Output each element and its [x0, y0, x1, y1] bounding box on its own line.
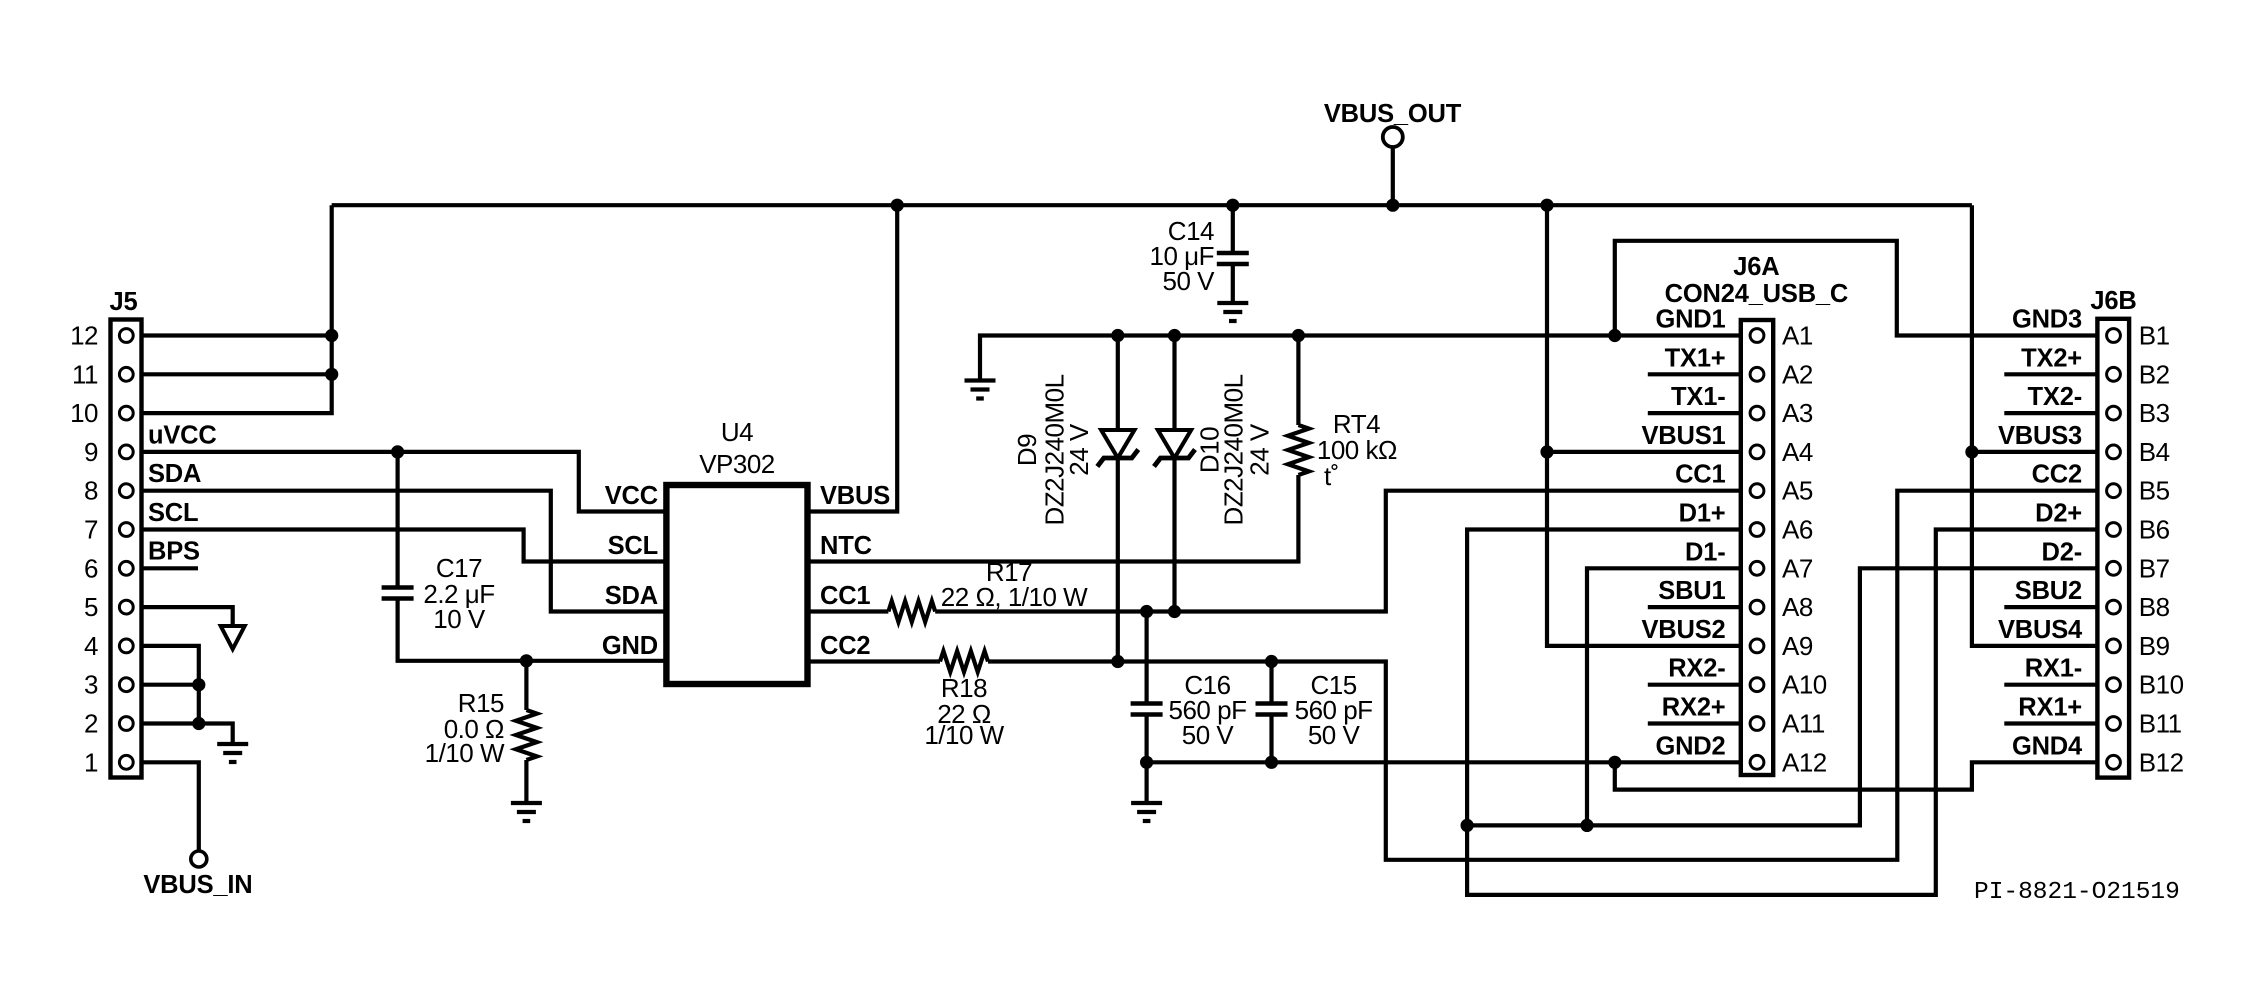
svg-text:VBUS: VBUS	[820, 482, 890, 510]
J6A pin A8 circle	[1750, 600, 1764, 614]
J6B pin B8 circle	[2107, 600, 2121, 614]
wire C14 top from bus	[1231, 205, 1235, 253]
svg-text:SCL: SCL	[608, 532, 658, 560]
port VBUS_IN circle	[191, 851, 207, 867]
svg-text:A12: A12	[1782, 747, 1827, 777]
svg-text:11: 11	[72, 359, 98, 389]
svg-text:5: 5	[84, 592, 98, 622]
svg-text:10 V: 10 V	[433, 604, 486, 634]
svg-text:VBUS1: VBUS1	[1641, 422, 1725, 450]
diode D10 (zener DZ2J240M0L)	[1158, 430, 1191, 458]
junction U4 GND / R15	[520, 654, 533, 667]
svg-text:A1: A1	[1782, 321, 1813, 351]
J6A pin A6 circle	[1750, 523, 1764, 537]
J6B pin B12 circle	[2107, 755, 2121, 769]
svg-text:22 Ω, 1/10 W: 22 Ω, 1/10 W	[941, 582, 1088, 612]
wire C16 top from CC1	[1144, 612, 1148, 704]
svg-text:VBUS3: VBUS3	[1998, 422, 2082, 450]
wire J5 pin2 to ground	[142, 724, 233, 743]
wire J5 pin10 up to VBUS top bus	[142, 205, 332, 413]
svg-text:VCC: VCC	[605, 482, 658, 510]
wire VBUS_OUT to bus	[1391, 148, 1395, 206]
svg-text:J5: J5	[110, 288, 138, 316]
svg-text:4: 4	[84, 631, 98, 661]
svg-text:A3: A3	[1782, 398, 1813, 428]
diode D9 (zener DZ2J240M0L)	[1101, 430, 1134, 458]
wire VBUS top bus	[332, 203, 1972, 207]
junction D10/CC1	[1168, 605, 1181, 618]
ground symbol left of D9	[965, 378, 996, 382]
svg-text:D9: D9	[1012, 434, 1042, 466]
J6A pin A11 circle	[1750, 717, 1764, 731]
svg-text:1/10 W: 1/10 W	[924, 720, 1004, 750]
svg-text:SBU2: SBU2	[2015, 577, 2082, 605]
wire GND2 line	[1147, 760, 1741, 764]
svg-text:12: 12	[70, 321, 98, 351]
svg-text:RX1-: RX1-	[2025, 655, 2082, 683]
wire J5 pin4 down join	[142, 646, 199, 724]
svg-text:CC2: CC2	[2032, 461, 2082, 489]
wire C14 bottom to ground	[1231, 264, 1235, 301]
svg-text:NTC: NTC	[820, 532, 872, 560]
svg-text:B9: B9	[2139, 631, 2170, 661]
J6B pin B3 circle	[2107, 406, 2121, 420]
wire J5 pin12 to bus column	[142, 333, 332, 337]
svg-text:J6A: J6A	[1733, 253, 1779, 281]
svg-text:B7: B7	[2139, 553, 2170, 583]
svg-text:VP302: VP302	[699, 449, 775, 479]
wire C15 top from CC2	[1269, 662, 1273, 704]
junction VBUS bus / U4	[891, 199, 904, 212]
svg-text:2: 2	[84, 709, 98, 739]
J6B pin B10 circle	[2107, 678, 2121, 692]
wire CC1 to J6A A5	[935, 491, 1741, 612]
junction GND1/D9	[1111, 329, 1124, 342]
J6A pin A7 circle	[1750, 561, 1764, 575]
svg-text:3: 3	[84, 670, 98, 700]
svg-text:B1: B1	[2139, 321, 2170, 351]
op-amp U4 body (IC VP302)	[666, 485, 807, 684]
svg-text:7: 7	[84, 515, 98, 545]
J5 pin 3 circle	[119, 678, 133, 692]
wire C17 bottom to GND line	[398, 599, 667, 661]
wire BPS stub J5 pin6	[142, 566, 199, 570]
junction bus / VBUS_OUT	[1386, 199, 1399, 212]
capacitor C14	[1217, 251, 1249, 255]
J6B pin B9 circle	[2107, 639, 2121, 653]
wire SBU1 stub	[1648, 605, 1741, 609]
svg-text:D2+: D2+	[2035, 500, 2082, 528]
wire VBUS drop to VBUS1/VBUS2	[1547, 205, 1741, 646]
svg-text:CON24_USB_C: CON24_USB_C	[1665, 280, 1848, 308]
wire TX1+ stub	[1648, 372, 1741, 376]
svg-text:A8: A8	[1782, 592, 1813, 622]
junction bus / C14	[1226, 199, 1239, 212]
svg-text:RX1+: RX1+	[2018, 694, 2082, 722]
wire CC1 U4 stub	[808, 609, 889, 613]
J6A pin A9 circle	[1750, 639, 1764, 653]
svg-text:6: 6	[84, 553, 98, 583]
ground symbol at C16	[1131, 801, 1162, 805]
junction GND2/C16/ground	[1140, 756, 1153, 769]
junction CC1/C16	[1140, 605, 1153, 618]
svg-text:B4: B4	[2139, 437, 2170, 467]
svg-text:24 V: 24 V	[1244, 423, 1274, 476]
svg-text:SDA: SDA	[605, 582, 658, 610]
svg-text:1/10 W: 1/10 W	[425, 738, 505, 768]
J6A pin A5 circle	[1750, 484, 1764, 498]
svg-text:B5: B5	[2139, 476, 2170, 506]
wire SBU2 stub	[2004, 605, 2097, 609]
resistor R15	[516, 710, 537, 760]
wire RX2+ stub	[1648, 721, 1741, 725]
svg-text:VBUS2: VBUS2	[1641, 616, 1725, 644]
svg-text:50 V: 50 V	[1182, 720, 1235, 750]
junction D9/CC2	[1111, 655, 1124, 668]
J5 pin 4 circle	[119, 639, 133, 653]
svg-text:RX2+: RX2+	[1662, 694, 1726, 722]
svg-text:TX1+: TX1+	[1665, 344, 1726, 372]
J5 pin 9 circle	[119, 445, 133, 459]
thermistor RT4	[1288, 425, 1309, 475]
wire SCL J5 pin7 to U4 SCL	[142, 530, 667, 562]
wire VBUS3 stub	[1972, 450, 2097, 454]
wire GND2 frame under to GND4	[1615, 762, 2098, 789]
svg-text:TX2-: TX2-	[2028, 383, 2082, 411]
wire GND1 frame over J6A to GND3	[1615, 241, 2098, 336]
wire NTC U4 to RT4	[808, 475, 1299, 562]
svg-text:VBUS_IN: VBUS_IN	[143, 871, 252, 899]
wire D9 cathode to CC2 line	[1116, 458, 1120, 662]
svg-text:BPS: BPS	[148, 538, 200, 566]
svg-text:8: 8	[84, 476, 98, 506]
junction GND1/RT4	[1292, 329, 1305, 342]
wire VBUS1 stub	[1547, 450, 1741, 454]
svg-text:A5: A5	[1782, 476, 1813, 506]
J6B pin B4 circle	[2107, 445, 2121, 459]
svg-text:B3: B3	[2139, 398, 2170, 428]
svg-text:CC1: CC1	[820, 582, 870, 610]
wire RX1- stub	[2004, 683, 2097, 687]
wire RX1+ stub	[2004, 721, 2097, 725]
J6B pin B7 circle	[2107, 561, 2121, 575]
svg-text:TX2+: TX2+	[2021, 344, 2082, 372]
wire CC2 U4 stub	[808, 659, 941, 663]
wire GND2 to ground symbol	[1144, 762, 1148, 801]
svg-text:PI-8821-O21519: PI-8821-O21519	[1974, 879, 2180, 906]
svg-text:SCL: SCL	[148, 499, 198, 527]
J6A pin A10 circle	[1750, 678, 1764, 692]
svg-text:CC2: CC2	[820, 632, 870, 660]
svg-text:J6B: J6B	[2090, 287, 2136, 315]
junction D1- / crossover wire	[1580, 819, 1593, 832]
svg-text:D1-: D1-	[1685, 538, 1726, 566]
wire uVCC J5 pin9 to U4 VCC	[142, 452, 667, 512]
svg-text:B2: B2	[2139, 359, 2170, 389]
svg-text:uVCC: uVCC	[148, 421, 217, 449]
svg-text:VBUS4: VBUS4	[1998, 616, 2083, 644]
svg-text:RX2-: RX2-	[1668, 655, 1725, 683]
svg-text:B12: B12	[2139, 747, 2184, 777]
connector J6A body	[1741, 320, 1773, 775]
svg-text:A7: A7	[1782, 553, 1813, 583]
wire RX2- stub	[1648, 683, 1741, 687]
svg-text:9: 9	[84, 437, 98, 467]
J5 pin 7 circle	[119, 523, 133, 537]
junction J5 pin2	[192, 717, 205, 730]
svg-text:VBUS_OUT: VBUS_OUT	[1324, 100, 1462, 128]
J5 pin 1 circle	[119, 755, 133, 769]
svg-text:GND1: GND1	[1655, 306, 1725, 334]
svg-text:GND: GND	[602, 632, 658, 660]
svg-text:A9: A9	[1782, 631, 1813, 661]
wire D10 cathode to CC1 line	[1172, 458, 1176, 612]
svg-text:A2: A2	[1782, 359, 1813, 389]
svg-text:B11: B11	[2139, 709, 2182, 739]
junction GND2/C15	[1265, 756, 1278, 769]
J6B pin B5 circle	[2107, 484, 2121, 498]
wire TX2+ stub	[2004, 372, 2097, 376]
J6A pin A1 circle	[1750, 329, 1764, 343]
capacitor C15	[1256, 701, 1288, 705]
J6B pin B1 circle	[2107, 329, 2121, 343]
connector J5 body	[111, 320, 142, 778]
svg-text:D2-: D2-	[2042, 538, 2083, 566]
wire R15 top	[524, 661, 528, 710]
svg-text:1: 1	[84, 747, 98, 777]
svg-text:CC1: CC1	[1675, 461, 1725, 489]
ground symbol at R15	[511, 801, 542, 805]
wire TX2- stub	[2004, 411, 2097, 415]
connector J6B body	[2097, 319, 2129, 778]
junction J5 pin12/bus column	[325, 329, 338, 342]
junction J5 pin11/bus column	[325, 368, 338, 381]
J6A pin A3 circle	[1750, 406, 1764, 420]
svg-text:U4: U4	[721, 417, 753, 447]
junction CC2/C15	[1265, 655, 1278, 668]
svg-text:A11: A11	[1782, 709, 1825, 739]
svg-text:GND4: GND4	[2012, 732, 2083, 760]
ground symbol at J5 pin2	[217, 742, 248, 746]
junction VBUS1	[1540, 445, 1553, 458]
wire D9 anode	[1116, 336, 1120, 431]
wire RT4 top	[1296, 336, 1300, 426]
wire D1+ J6A A6 to D2+ J6B B6	[1467, 530, 2097, 895]
wire SDA J5 pin8 to U4 SDA	[142, 491, 667, 612]
junction uVCC / C17	[391, 445, 404, 458]
svg-text:24 V: 24 V	[1064, 423, 1094, 476]
shield ground symbol (open triangle)	[221, 626, 245, 649]
J5 pin 8 circle	[119, 484, 133, 498]
svg-text:TX1-: TX1-	[1671, 383, 1725, 411]
wire C15 bottom to GND2 line	[1269, 715, 1273, 763]
wire D1- J6A A7 down	[1587, 568, 1741, 825]
svg-text:50 V: 50 V	[1163, 266, 1216, 296]
ground symbol at C14	[1217, 301, 1248, 305]
wire J5 pin3 stub	[142, 683, 199, 687]
J6A pin A4 circle	[1750, 445, 1764, 459]
wire crossover to D2- J6B B7	[1467, 568, 2097, 825]
wire U4 VBUS to top bus	[808, 205, 898, 511]
wire TX1- stub	[1648, 411, 1741, 415]
J6B pin B11 circle	[2107, 717, 2121, 731]
svg-text:SBU1: SBU1	[1658, 577, 1725, 605]
resistor R17	[888, 601, 935, 622]
wire J5 pin11 to bus column	[142, 372, 332, 376]
svg-text:A10: A10	[1782, 670, 1827, 700]
J5 pin 10 circle	[119, 406, 133, 420]
svg-text:B10: B10	[2139, 670, 2184, 700]
wire C16 bottom to GND2 line	[1144, 715, 1148, 763]
svg-text:GND3: GND3	[2012, 306, 2082, 334]
wire J5 pin1 to VBUS_IN	[142, 762, 199, 851]
J5 pin 12 circle	[119, 329, 133, 343]
svg-text:A6: A6	[1782, 515, 1813, 545]
svg-text:50 V: 50 V	[1308, 720, 1361, 750]
svg-text:SDA: SDA	[148, 460, 201, 488]
junction J5 pin3	[192, 678, 205, 691]
J6B pin B2 circle	[2107, 367, 2121, 381]
J6A pin A12 circle	[1750, 755, 1764, 769]
junction crossover / D1+ wire	[1461, 819, 1474, 832]
svg-text:B6: B6	[2139, 515, 2170, 545]
junction GND1/D10	[1168, 329, 1181, 342]
junction GND1/J6A frame	[1608, 329, 1621, 342]
junction GND2/frame	[1608, 756, 1621, 769]
J6B pin B6 circle	[2107, 523, 2121, 537]
capacitor C16	[1131, 701, 1163, 705]
J5 pin 2 circle	[119, 717, 133, 731]
svg-text:10: 10	[70, 398, 98, 428]
wire C17 top from uVCC	[396, 452, 400, 588]
wire R15 bottom to ground	[524, 760, 528, 801]
svg-text:GND2: GND2	[1655, 732, 1725, 760]
svg-text:A4: A4	[1782, 437, 1813, 467]
resistor R18	[940, 651, 988, 672]
svg-text:t˚: t˚	[1324, 461, 1339, 491]
svg-text:B8: B8	[2139, 592, 2170, 622]
wire J5 pin5 to shield ground	[142, 607, 233, 626]
capacitor C17	[382, 585, 414, 589]
J5 pin 11 circle	[119, 367, 133, 381]
wire D10 anode	[1172, 336, 1176, 431]
svg-text:D1+: D1+	[1679, 500, 1726, 528]
J6A pin A2 circle	[1750, 367, 1764, 381]
port VBUS_OUT circle	[1383, 127, 1403, 147]
J5 pin 5 circle	[119, 600, 133, 614]
junction VBUS3	[1965, 445, 1978, 458]
wire VBUS drop to VBUS3/VBUS4	[1972, 205, 2097, 646]
junction bus / left VBUS drop	[1540, 199, 1553, 212]
J5 pin 6 circle	[119, 561, 133, 575]
wire GND1 line	[980, 336, 1741, 379]
wire CC2 to J6B B5	[988, 491, 2097, 860]
